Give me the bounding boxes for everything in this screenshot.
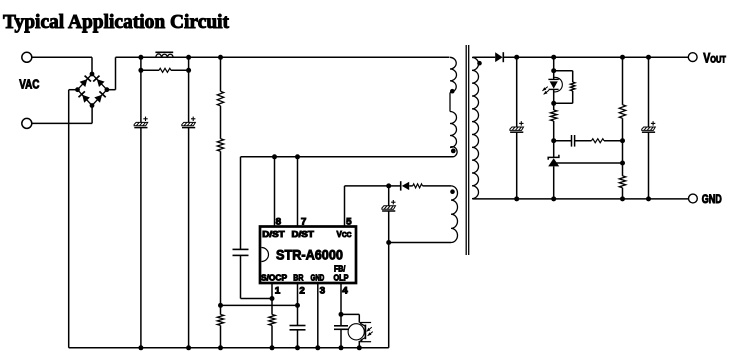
svg-text:8: 8 [276, 216, 282, 227]
svg-text:1: 1 [275, 286, 281, 297]
svg-text:STR-A6000: STR-A6000 [276, 246, 343, 262]
svg-text:5: 5 [346, 216, 352, 227]
svg-text:VCC: VCC [337, 230, 352, 239]
svg-text:S/OCP: S/OCP [261, 273, 288, 282]
svg-text:BR: BR [293, 273, 303, 282]
svg-text:7: 7 [301, 216, 307, 227]
svg-text:3: 3 [320, 286, 326, 297]
svg-text:VAC: VAC [19, 78, 40, 92]
svg-text:GND: GND [311, 273, 325, 282]
svg-text:2: 2 [299, 286, 305, 297]
svg-text:Typical Application Circuit: Typical Application Circuit [3, 11, 229, 33]
svg-text:4: 4 [342, 286, 348, 297]
svg-text:OLP: OLP [334, 273, 349, 282]
svg-text:GND: GND [702, 193, 722, 207]
svg-text:D/ST: D/ST [292, 230, 314, 239]
svg-text:FB/: FB/ [334, 264, 346, 273]
svg-text:D/ST: D/ST [262, 230, 284, 239]
svg-text:VOUT: VOUT [703, 50, 726, 66]
